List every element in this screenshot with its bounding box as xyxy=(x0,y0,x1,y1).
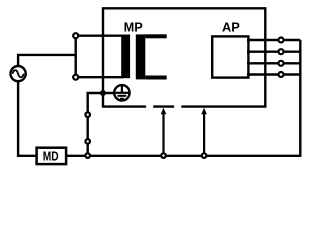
transformer MP primary winding bar xyxy=(121,35,130,79)
protective earth symbol circle xyxy=(114,85,129,100)
svg-text:MD: MD xyxy=(43,148,59,163)
measuring probe arrow 2 head xyxy=(201,108,207,115)
measuring probe arrow 2 shaft xyxy=(203,113,205,155)
transformer MP secondary winding bar xyxy=(136,34,146,79)
measuring probe arrow 1 shaft xyxy=(162,113,164,155)
supply terminal lower xyxy=(73,75,78,80)
svg-text:AP: AP xyxy=(222,20,240,35)
patient connection terminal 3 xyxy=(279,61,284,66)
supply terminal upper xyxy=(73,33,78,38)
patient connection terminal 1 xyxy=(279,38,284,43)
patient connection terminal 2 xyxy=(279,49,284,54)
wire bottom measuring bus xyxy=(64,155,300,157)
wire applied part lead 1 xyxy=(247,39,300,41)
wire applied part lead 4 xyxy=(247,73,300,75)
protective earth symbol bar 1 xyxy=(115,92,128,94)
patient connection terminal 4 xyxy=(279,72,284,77)
AC source sine symbol xyxy=(13,70,24,77)
applied part AP box xyxy=(212,36,248,77)
wire from AC source top to supply terminals xyxy=(18,55,77,65)
wire earth from enclosure to measuring bus xyxy=(88,93,114,156)
transformer MP secondary bottom arm xyxy=(145,76,166,80)
junction dot earth wire on enclosure xyxy=(100,90,106,96)
protective earth symbol bar 3 xyxy=(120,98,124,100)
wire from AC source bottom to MD xyxy=(18,82,37,156)
protective earth symbol stem xyxy=(121,85,123,92)
earth line connector upper xyxy=(85,112,90,117)
protective earth symbol bar 2 xyxy=(118,95,127,97)
wire applied part lead 2 xyxy=(247,51,300,53)
wire supply terminal link xyxy=(74,36,76,77)
measuring device MD box xyxy=(37,148,67,164)
measuring probe arrow 1 foot connector xyxy=(161,153,166,158)
wire applied part lead 3 xyxy=(247,62,300,64)
measuring probe arrow 2 foot connector xyxy=(202,153,207,158)
enclosure of equipment under test xyxy=(102,8,267,106)
earth line connector lower xyxy=(85,139,90,144)
svg-text:MP: MP xyxy=(124,20,144,35)
earth line connector on measuring bus xyxy=(85,153,90,158)
wire right-side bus to applied-part terminals xyxy=(299,40,301,157)
AC source circle xyxy=(11,66,26,81)
wire neutral into transformer primary xyxy=(76,76,123,78)
measuring probe arrow 1 head xyxy=(161,108,167,115)
wire phase into transformer primary xyxy=(76,35,123,37)
transformer MP secondary top arm xyxy=(145,34,166,38)
